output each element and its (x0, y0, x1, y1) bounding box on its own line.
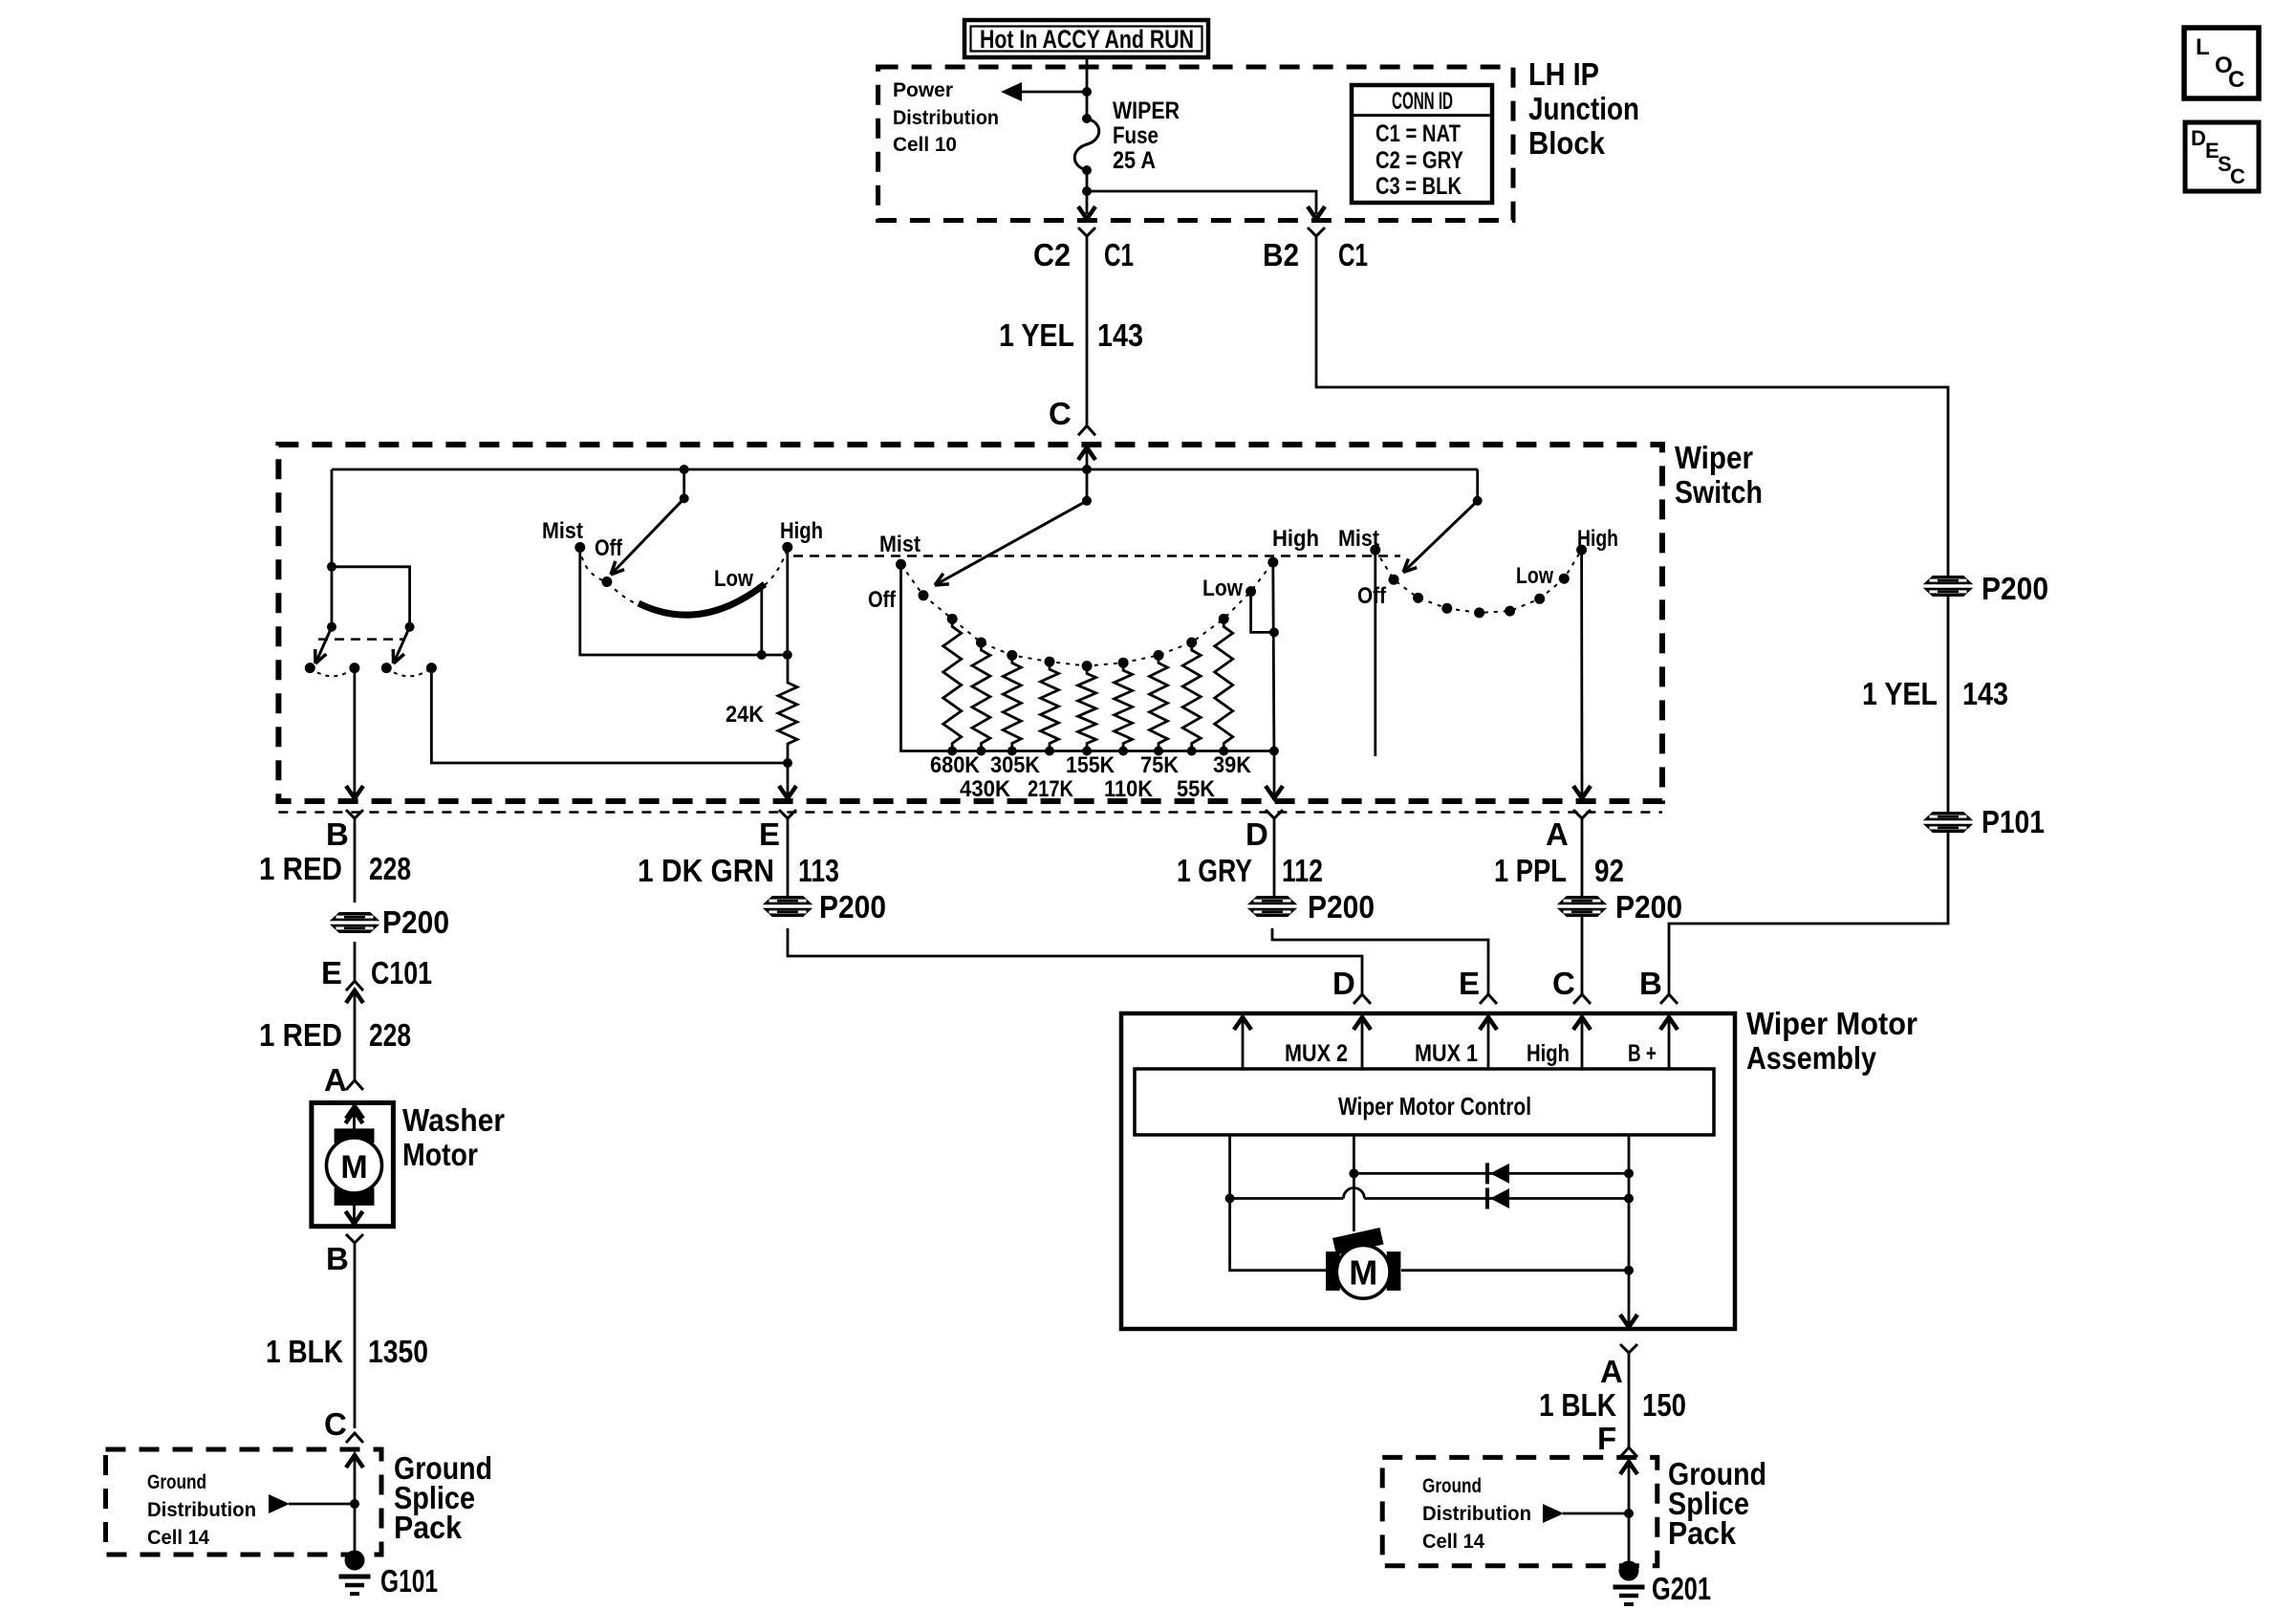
resistor 55K (1182, 642, 1201, 751)
resistor 217K (1041, 662, 1059, 751)
svg-text:D: D (1332, 966, 1355, 1001)
motor ground output arrow (1620, 1315, 1637, 1327)
svg-text:228: 228 (369, 851, 411, 886)
Ground Distribution Cell 14 box (right) (1382, 1457, 1657, 1565)
svg-text:Pack: Pack (394, 1510, 463, 1545)
power feed label box: Hot In ACCY And RUN (964, 20, 1208, 57)
node rail/C (1082, 465, 1092, 474)
svg-text:1 YEL: 1 YEL (999, 317, 1074, 353)
switch pin A (1573, 786, 1591, 798)
svg-text:Mist: Mist (879, 532, 921, 557)
LOC box (2184, 28, 2259, 98)
svg-text:B +: B + (1628, 1040, 1657, 1067)
low contact strip (thick arc) (639, 584, 765, 615)
svg-text:C: C (324, 1406, 347, 1442)
resistor 680K (943, 619, 962, 751)
splice P101 (1924, 813, 1972, 833)
svg-text:CONN ID: CONN ID (1392, 88, 1453, 115)
svg-text:Cell 14: Cell 14 (147, 1527, 209, 1549)
fuse WIPER 25 A (1082, 114, 1092, 123)
svg-text:Junction: Junction (1528, 91, 1639, 126)
splice P200 (E wire) (764, 897, 812, 917)
svg-text:E: E (759, 816, 780, 852)
resistor 110K (1115, 663, 1133, 751)
ground G201 (1619, 1561, 1639, 1581)
washer switch (left, two-pole) (331, 469, 334, 627)
switch pin D (1266, 786, 1283, 798)
svg-text:Assembly: Assembly (1746, 1040, 1877, 1076)
wire 1 RED 228 (354, 818, 357, 903)
sw2 high wire to D pin (1273, 562, 1274, 751)
svg-text:Ground: Ground (147, 1471, 206, 1493)
resistor 75K (1150, 655, 1168, 751)
svg-text:155K: 155K (1066, 752, 1116, 778)
diode line 1 (1354, 1172, 1629, 1175)
connector into ground splice pack (right) (1620, 1447, 1637, 1457)
svg-text:Low: Low (714, 566, 753, 592)
svg-text:A: A (324, 1062, 347, 1098)
svg-text:C: C (2228, 67, 2244, 93)
svg-text:92: 92 (1594, 853, 1624, 888)
resistor 39K (1215, 619, 1233, 751)
svg-text:1 PPL: 1 PPL (1494, 853, 1567, 888)
right rail splice P200 (1924, 577, 1972, 597)
mechanical link line (793, 555, 1400, 557)
svg-text:MUX 1: MUX 1 (1415, 1040, 1478, 1067)
svg-text:680K: 680K (930, 752, 981, 778)
wire to B2 pin (1087, 191, 1316, 214)
svg-text:75K: 75K (1140, 752, 1180, 778)
svg-text:F: F (1597, 1421, 1616, 1456)
svg-text:C2 = GRY: C2 = GRY (1375, 147, 1463, 174)
splice P200 (B wire) (331, 913, 379, 933)
control outputs (1230, 1135, 1329, 1271)
mechanical link washer switch (318, 638, 405, 641)
svg-text:B2: B2 (1263, 237, 1299, 272)
ground distribution feed arrow (269, 1494, 290, 1513)
svg-text:Washer: Washer (402, 1102, 505, 1138)
svg-text:LH IP: LH IP (1528, 56, 1599, 92)
svg-text:Off: Off (1357, 583, 1387, 609)
svg-text:217K: 217K (1028, 776, 1074, 802)
svg-text:E: E (321, 955, 342, 990)
diode D1 (park) (1485, 1163, 1489, 1184)
svg-text:High: High (780, 518, 823, 544)
svg-text:305K: 305K (990, 752, 1041, 778)
svg-text:Fuse: Fuse (1113, 122, 1159, 149)
wire 1 YEL 143 (B2 to right rail down to motor B+) (1316, 236, 1948, 577)
ground distribution feed arrow (right) (1543, 1504, 1564, 1523)
svg-text:39K: 39K (1213, 752, 1252, 778)
svg-text:Switch: Switch (1675, 474, 1763, 510)
svg-text:Low: Low (1516, 563, 1553, 589)
svg-text:MUX 2: MUX 2 (1285, 1040, 1348, 1067)
svg-text:P101: P101 (1982, 804, 2045, 839)
CONN ID table (1352, 85, 1492, 203)
resistor 430K (972, 642, 990, 751)
wire washer contact to B pin (353, 668, 356, 796)
svg-text:150: 150 (1642, 1387, 1686, 1423)
diode D2 (run) (1485, 1188, 1489, 1209)
wire fuse to C1 connector (1086, 170, 1089, 214)
svg-text:1350: 1350 (368, 1334, 428, 1369)
svg-text:B: B (1639, 966, 1662, 1001)
svg-text:C2: C2 (1033, 237, 1071, 272)
motor pin C (1573, 994, 1591, 1004)
svg-text:P200: P200 (1982, 571, 2048, 606)
svg-text:B: B (326, 816, 349, 852)
svg-text:M: M (1349, 1253, 1377, 1293)
svg-text:Off: Off (595, 535, 623, 561)
wire: hot box to fuse (1086, 57, 1089, 119)
svg-text:1 BLK: 1 BLK (1539, 1387, 1616, 1423)
node: tap to power distribution (1082, 87, 1092, 97)
node 24K / washer-E junction (783, 758, 792, 768)
svg-text:Off: Off (868, 587, 897, 613)
svg-text:B: B (326, 1241, 349, 1276)
svg-text:Motor: Motor (402, 1137, 478, 1172)
diode line 2 with hop (1230, 1197, 1344, 1200)
sw1 high terminal / 24K branch (786, 547, 789, 655)
ground G101 (345, 1551, 365, 1571)
svg-text:E: E (1459, 966, 1480, 1001)
svg-text:228: 228 (369, 1017, 411, 1053)
svg-text:C101: C101 (371, 955, 432, 990)
resistor 24K (787, 655, 790, 675)
motor pin B (1660, 994, 1678, 1004)
svg-text:P200: P200 (1615, 889, 1682, 925)
svg-text:Mist: Mist (542, 518, 583, 544)
wiper arm switch 3 (1476, 469, 1479, 501)
svg-text:1 DK GRN: 1 DK GRN (638, 853, 774, 888)
svg-text:25 A: 25 A (1113, 147, 1156, 174)
svg-text:C: C (1049, 396, 1072, 431)
wiper arm switch 1 (682, 469, 685, 498)
wire 1 GRY 112 (1273, 818, 1276, 899)
splice P200 (D wire) (1248, 897, 1296, 917)
svg-text:D: D (1245, 816, 1268, 852)
svg-text:430K: 430K (960, 776, 1011, 802)
svg-text:Distribution: Distribution (147, 1499, 256, 1521)
motor pin A (bottom) (1620, 1344, 1637, 1353)
svg-text:A: A (1600, 1354, 1623, 1389)
sw2 mist rail (901, 564, 1274, 751)
svg-text:55K: 55K (1177, 776, 1216, 802)
svg-text:P200: P200 (819, 889, 886, 925)
svg-text:112: 112 (1282, 853, 1323, 888)
svg-text:143: 143 (1962, 676, 2008, 711)
svg-text:Pack: Pack (1668, 1515, 1737, 1551)
wire 1 DK GRN 113 (787, 818, 790, 899)
svg-text:C: C (2230, 164, 2245, 188)
svg-text:M: M (340, 1149, 367, 1186)
svg-text:Ground: Ground (1422, 1475, 1482, 1497)
wire arrow to Power Distribution Cell 10 (1007, 91, 1087, 94)
splice P200 (A wire) (1558, 897, 1606, 917)
svg-text:Distribution: Distribution (1422, 1503, 1531, 1525)
svg-text:C1: C1 (1104, 237, 1134, 272)
svg-text:Power: Power (893, 79, 953, 101)
connector C2/C1 at junction block (1078, 207, 1095, 219)
wiper motor M (1401, 1269, 1629, 1272)
svg-text:Block: Block (1528, 125, 1606, 161)
node ground splice (right) (1624, 1509, 1634, 1518)
svg-text:113: 113 (798, 853, 839, 888)
switch feed rail (332, 468, 1478, 471)
svg-text:WIPER: WIPER (1113, 98, 1180, 124)
wire 1 PPL 92 (1581, 818, 1584, 899)
Wiper Motor Assembly box (1121, 1013, 1735, 1329)
position arc sw1 (580, 548, 638, 605)
sw3 mist stub (1374, 550, 1376, 756)
wire washer contact to E net (431, 668, 788, 763)
svg-text:A: A (1546, 816, 1569, 852)
svg-text:P200: P200 (1308, 889, 1375, 925)
svg-text:143: 143 (1097, 317, 1143, 353)
low tap to high wire (1251, 592, 1274, 633)
svg-text:Low: Low (1202, 576, 1243, 601)
svg-text:Wiper: Wiper (1675, 440, 1753, 475)
svg-text:1 YEL: 1 YEL (1862, 676, 1938, 711)
sw1 mist terminal rail (580, 548, 788, 656)
resistor 155K (1078, 666, 1096, 751)
svg-text:1 BLK: 1 BLK (266, 1334, 343, 1369)
svg-text:D: D (2191, 126, 2206, 150)
motor pin E (1480, 994, 1497, 1004)
switch pin B (346, 786, 363, 798)
svg-text:1 RED: 1 RED (259, 851, 342, 886)
svg-text:G101: G101 (380, 1563, 438, 1599)
svg-text:Wiper Motor Control: Wiper Motor Control (1338, 1092, 1531, 1120)
svg-text:G201: G201 (1652, 1571, 1711, 1606)
svg-text:Wiper Motor: Wiper Motor (1746, 1006, 1917, 1041)
svg-text:110K: 110K (1104, 776, 1154, 802)
washer motor M (312, 1103, 394, 1227)
svg-text:C1: C1 (1338, 237, 1368, 272)
svg-text:C: C (1552, 966, 1575, 1001)
DESC box (2185, 122, 2259, 191)
svg-text:P200: P200 (382, 904, 449, 940)
svg-text:C1 = NAT: C1 = NAT (1375, 120, 1461, 147)
input arrows into wiper motor control (1242, 1017, 1245, 1069)
svg-text:1 RED: 1 RED (259, 1017, 342, 1053)
connector row below switch (278, 811, 1662, 814)
svg-text:C3 = BLK: C3 = BLK (1375, 173, 1462, 200)
motor pin D (1354, 994, 1371, 1004)
svg-text:High: High (1272, 526, 1319, 552)
LH IP Junction Block (dashed box) (878, 67, 1513, 221)
svg-text:Cell 14: Cell 14 (1422, 1531, 1484, 1553)
svg-text:Hot In ACCY And RUN: Hot In ACCY And RUN (980, 25, 1194, 54)
Wiper Motor Control box (1135, 1069, 1714, 1135)
node rail/sw1 (680, 465, 689, 474)
switch pin E (779, 786, 796, 798)
sw3 high wire to A pin (1580, 550, 1583, 796)
resistor 305K (1003, 655, 1021, 751)
connector B2/C1 at junction block (1308, 207, 1325, 219)
node ground splice (350, 1499, 359, 1509)
svg-text:Distribution: Distribution (893, 107, 999, 129)
svg-text:High: High (1527, 1040, 1570, 1067)
node junction to B2 branch (1082, 186, 1092, 196)
wiper arm switch 2 (1082, 496, 1092, 506)
Wiper Switch (dashed box) (278, 445, 1662, 801)
Ground Distribution Cell 14 box (left) (106, 1449, 382, 1555)
svg-text:1 GRY: 1 GRY (1177, 853, 1252, 888)
washer switch contacts (305, 663, 315, 673)
svg-text:L: L (2196, 34, 2210, 60)
connector pin B washer motor (346, 1234, 363, 1243)
svg-text:Cell 10: Cell 10 (893, 134, 957, 156)
svg-text:24K: 24K (726, 702, 765, 728)
